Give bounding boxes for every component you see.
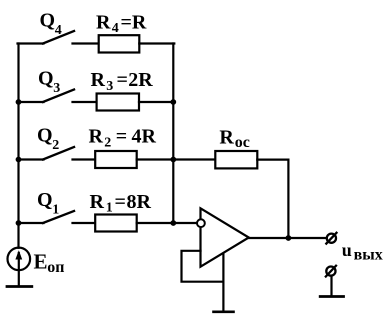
- node row4 left: [16, 220, 22, 226]
- wire row4 left: [19, 222, 44, 224]
- svg-text:4: 4: [112, 21, 119, 36]
- svg-text:R: R: [219, 127, 234, 149]
- terminal output upper slash: [326, 233, 336, 244]
- svg-text:R: R: [91, 69, 106, 91]
- node row3 right: [170, 157, 176, 163]
- terminal output lower circle: [326, 267, 335, 276]
- svg-text:=: =: [116, 126, 127, 148]
- terminal output lower slash: [326, 266, 336, 277]
- ground op-amp bar: [214, 310, 234, 313]
- ground source bar: [7, 285, 32, 288]
- wire row3 right: [137, 158, 174, 160]
- svg-text:Q: Q: [37, 189, 53, 211]
- ground output bar: [320, 295, 343, 298]
- op-amp U1 inverting bubble: [197, 219, 205, 227]
- wire non-inverting input loop: [182, 251, 224, 282]
- resistor R1 body: [95, 215, 137, 232]
- svg-text:E: E: [34, 249, 48, 273]
- source Eop arrowhead: [15, 250, 22, 259]
- svg-text:Q: Q: [38, 68, 54, 90]
- svg-text:=: =: [115, 191, 126, 213]
- switch Q2 blade: [43, 147, 74, 160]
- svg-text:3: 3: [106, 79, 113, 94]
- svg-text:3: 3: [53, 81, 60, 96]
- svg-text:вых: вых: [354, 247, 383, 264]
- wire row3 left: [19, 158, 44, 160]
- wire op-amp output: [249, 237, 325, 239]
- op-amp U1 triangle: [201, 208, 249, 266]
- wire row1 right: [139, 42, 174, 44]
- switch Q3 blade: [43, 90, 74, 103]
- wire source to ground: [18, 270, 20, 286]
- node output: [286, 235, 292, 241]
- source Eop circle: [7, 248, 30, 271]
- svg-text:оп: оп: [47, 259, 64, 276]
- wire left bus: [17, 44, 19, 248]
- svg-text:Q: Q: [40, 9, 56, 31]
- svg-text:1: 1: [106, 201, 113, 216]
- svg-text:4R: 4R: [132, 126, 157, 148]
- node row2 right: [170, 99, 176, 105]
- svg-text:4: 4: [55, 23, 62, 38]
- svg-text:R: R: [89, 126, 104, 148]
- wire row4 to op-amp inverting input: [137, 222, 198, 224]
- svg-text:8R: 8R: [127, 191, 152, 213]
- terminal output upper circle: [327, 234, 336, 243]
- svg-text:1: 1: [52, 202, 59, 217]
- svg-text:R: R: [96, 12, 111, 34]
- wire row2 right: [139, 101, 173, 103]
- resistor Roc body: [215, 151, 257, 168]
- wire row1 left: [18, 42, 44, 44]
- resistor R3 body: [97, 94, 139, 111]
- wire Roc right feedback: [257, 160, 288, 238]
- switch Q4 blade: [43, 31, 74, 44]
- svg-text:=R: =R: [121, 12, 147, 34]
- switch Q1 blade: [43, 211, 74, 223]
- svg-text:u: u: [342, 240, 352, 260]
- svg-text:Q: Q: [37, 125, 53, 147]
- wire right bus: [172, 44, 174, 224]
- node row4 right: [170, 220, 176, 226]
- svg-text:2: 2: [52, 138, 59, 153]
- resistor R2 body: [95, 151, 137, 168]
- resistor R4 body: [99, 35, 140, 52]
- svg-text:2: 2: [104, 136, 111, 151]
- source Eop arrow shaft: [18, 253, 20, 269]
- wire row2 mid: [73, 101, 97, 103]
- wire Roc left: [173, 158, 215, 160]
- node row3 left: [16, 157, 22, 163]
- wire row2 left: [19, 101, 44, 103]
- svg-text:ос: ос: [235, 134, 250, 151]
- svg-text:2R: 2R: [128, 69, 153, 91]
- svg-text:=: =: [117, 69, 128, 91]
- wire row1 mid: [73, 42, 99, 44]
- svg-text:R: R: [90, 191, 105, 213]
- wire lower terminal to ground: [330, 277, 332, 297]
- wire row4 mid: [73, 222, 96, 224]
- wire op-amp common terminal: [222, 254, 224, 312]
- wire row3 mid: [73, 158, 96, 160]
- node row2 left: [16, 99, 22, 105]
